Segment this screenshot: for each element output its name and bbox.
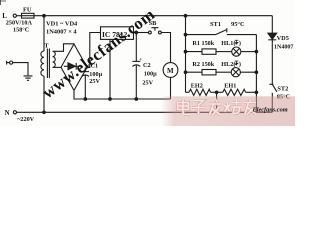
- ground: [24, 76, 33, 80]
- svg-text:1N4007: 1N4007: [274, 45, 293, 51]
- node junction right bus R1 row: [255, 50, 258, 53]
- svg-text:M: M: [167, 67, 174, 75]
- wire transformer primary bottom lead to N rail: [43, 76, 45, 112]
- wire common rail (bridge minus): [74, 90, 171, 99]
- wire right bus: [255, 35, 257, 113]
- svg-text:VD5: VD5: [277, 35, 289, 42]
- svg-text:HL1(: HL1(: [221, 40, 235, 47]
- node junction C1 / common rail: [84, 98, 87, 101]
- wire IC 7812 ground pin: [109, 39, 111, 99]
- svg-text:EH1: EH1: [224, 83, 236, 90]
- svg-text:C1: C1: [91, 62, 99, 69]
- node junction C2 / common rail: [135, 98, 138, 101]
- diode VD5 1N4007: [268, 16, 293, 51]
- svg-text:25V: 25V: [89, 78, 100, 85]
- op-amp regulator IC 7812: [101, 27, 134, 40]
- svg-text:ST1: ST1: [210, 21, 221, 28]
- wire motor bottom lead: [170, 77, 172, 99]
- watermark char fa: [209, 100, 221, 116]
- svg-text:N: N: [5, 110, 10, 117]
- lamp HL1 (green): [221, 40, 256, 56]
- wire transformer primary top lead: [43, 16, 45, 51]
- resistor R2 150k: [186, 61, 232, 75]
- wire secondary bottom lead to bridge left vertex: [53, 66, 61, 68]
- svg-text:SB: SB: [149, 20, 158, 27]
- node N (mains neutral terminal): [5, 110, 35, 123]
- svg-text:+: +: [139, 57, 142, 63]
- node junction left bus R2 row: [184, 71, 187, 74]
- node junction left bus ST1 row: [184, 33, 187, 36]
- svg-text:95°C: 95°C: [231, 21, 245, 28]
- svg-text:IC 7812: IC 7812: [102, 30, 127, 39]
- thermostat ST1 95°C: [186, 21, 257, 35]
- wire earth terminal to ground: [13, 63, 28, 76]
- wire ST2 to bottom rail: [271, 93, 273, 113]
- watermark char dian: [178, 100, 191, 115]
- svg-text:+: +: [87, 63, 90, 69]
- svg-text:): ): [239, 40, 241, 47]
- watermark char you: [245, 100, 257, 115]
- svg-text:85°C: 85°C: [277, 94, 291, 101]
- capacitor C1 100u 25V: [82, 62, 103, 99]
- node junction right bus EH row: [255, 91, 258, 94]
- svg-text:25V: 25V: [142, 79, 153, 86]
- svg-text:1N4007 × 4: 1N4007 × 4: [46, 29, 77, 36]
- heater EH2: [186, 83, 223, 96]
- svg-text:R1 150k: R1 150k: [192, 40, 214, 47]
- svg-text:ST2: ST2: [277, 85, 288, 92]
- node L (mains live terminal): [2, 13, 16, 20]
- resistor R1 150k: [186, 40, 232, 54]
- wire SB to motor drop: [161, 33, 170, 63]
- watermark char shao: [225, 100, 242, 114]
- svg-text:158°C: 158°C: [13, 27, 29, 34]
- node junction top rail / transformer primary: [43, 14, 46, 17]
- watermark char zi: [192, 101, 206, 115]
- thermostat ST2 85°C: [269, 84, 290, 100]
- capacitor C2 100u 25V: [132, 33, 157, 100]
- svg-text:~220V: ~220V: [17, 116, 34, 123]
- svg-text:VD1 ~ VD4: VD1 ~ VD4: [46, 21, 78, 28]
- wire bridge + output to IC input: [87, 33, 101, 68]
- fuse FU 250V/10A with 158°C thermal fuse labels: [6, 6, 34, 33]
- node junction gnd pin / common rail: [109, 98, 112, 101]
- svg-text:FU: FU: [23, 6, 32, 13]
- wire top rail: fuse to right corner: [34, 15, 272, 17]
- svg-text:): ): [239, 61, 241, 68]
- label VD1~VD4 1N4007x4 for bridge: [46, 21, 78, 36]
- wire secondary top lead to bridge: [53, 44, 74, 52]
- node junction left bus R1 row: [184, 50, 187, 53]
- push button SB: [149, 20, 162, 34]
- bridge rectifier VD1-VD4: [61, 44, 87, 90]
- lamp HL2 (red): [221, 61, 256, 77]
- wire VD5 to ST2: [271, 40, 273, 84]
- svg-text:C2: C2: [143, 62, 151, 69]
- wire IC output to SB: [134, 32, 149, 34]
- wire EH midpoint to N rail: [216, 92, 218, 112]
- svg-text:+: +: [80, 65, 84, 71]
- node junction right bus R2 row: [255, 71, 258, 74]
- heater EH1: [223, 83, 257, 96]
- svg-text:100µ: 100µ: [144, 71, 157, 78]
- node junction top rail / left bus: [184, 14, 187, 17]
- wire L terminal to fuse: [16, 15, 21, 17]
- motor M: [163, 63, 178, 78]
- wire left bus from top rail: [185, 16, 187, 93]
- node junction primary / bottom N rail: [43, 111, 46, 114]
- svg-text:HL2(: HL2(: [221, 61, 235, 68]
- node E earth terminal: [7, 61, 13, 65]
- node junction EH2/EH1 midpoint: [215, 91, 218, 94]
- svg-text:250V/10A: 250V/10A: [6, 20, 33, 27]
- transformer T: [41, 43, 55, 78]
- node junction C2 tap: [135, 31, 138, 34]
- svg-text:100µ: 100µ: [89, 71, 102, 78]
- svg-text:R2 150k: R2 150k: [192, 61, 214, 68]
- svg-text:T: T: [44, 43, 49, 50]
- wire bottom N rail: [17, 111, 273, 113]
